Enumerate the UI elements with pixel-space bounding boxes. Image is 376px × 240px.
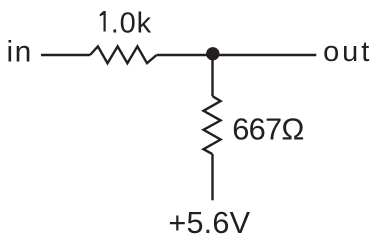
wire R1 to out [157, 54, 317, 56]
wire in to R1 [41, 54, 90, 56]
wire node down to R2 [211, 54, 213, 96]
resistor R1 [90, 46, 157, 63]
svg-text:out: out [323, 36, 372, 68]
wire R2 to supply [211, 154, 213, 200]
junction node [206, 47, 219, 60]
value 1.0k [100, 11, 106, 32]
resistor R2 [204, 96, 221, 154]
svg-text:667Ω: 667Ω [232, 111, 303, 146]
svg-text:+5.6V: +5.6V [168, 206, 250, 239]
svg-text:.0k: .0k [111, 7, 152, 39]
svg-text:in: in [7, 36, 33, 69]
